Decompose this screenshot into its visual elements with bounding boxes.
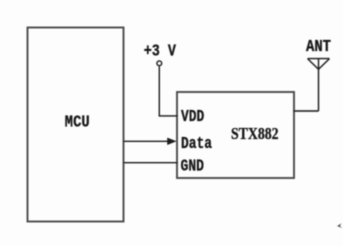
stray mark bottom-right bbox=[337, 223, 342, 228]
STX882 box (U1) bbox=[177, 92, 294, 178]
svg-text:MCU: MCU bbox=[65, 114, 90, 133]
wire MCU to Data pin bbox=[124, 140, 170, 142]
MCU box bbox=[28, 28, 124, 222]
svg-text:STX882: STX882 bbox=[231, 124, 279, 143]
svg-text:ANT: ANT bbox=[306, 38, 331, 57]
+3V terminal circle bbox=[157, 61, 162, 66]
wire +3V to VDD pin bbox=[159, 66, 178, 116]
wire MCU to GND pin bbox=[124, 162, 178, 164]
arrowhead into Data pin bbox=[167, 138, 176, 145]
wire antenna to STX882 bbox=[293, 110, 318, 112]
svg-text:VDD: VDD bbox=[181, 108, 204, 127]
svg-text:+3 V: +3 V bbox=[144, 43, 177, 62]
svg-text:Data: Data bbox=[181, 135, 212, 154]
antenna symbol bbox=[308, 59, 330, 111]
svg-text:GND: GND bbox=[181, 157, 205, 176]
